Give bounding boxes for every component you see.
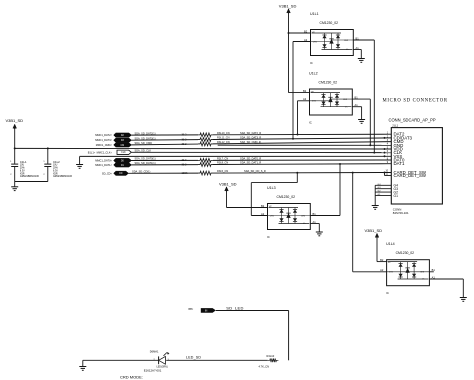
ground GND-vss-rail: [76, 165, 83, 169]
svg-text:CM1230_02: CM1230_02: [277, 195, 296, 199]
svg-text:IC: IC: [386, 291, 389, 295]
wire SDA_SD_CD_S_R to connector CARD_DET pin: [213, 169, 391, 173]
svg-text:U1L3: U1L3: [267, 186, 276, 190]
svg-text:CLK: CLK: [121, 152, 126, 154]
svg-text:CM: CM: [121, 145, 125, 147]
svg-text:33.2: 33.2: [182, 137, 188, 141]
wire row VSS from ground corner to connector: [80, 155, 392, 157]
svg-text:MMC1_DAT0<: MMC1_DAT0<: [95, 159, 112, 163]
wire U1L2 pin A1 to ground: [352, 106, 361, 108]
svg-text:10U: 10U: [53, 165, 58, 167]
svg-text:33.2: 33.2: [182, 162, 188, 166]
connector J1L1 CONN_SDCARD_AP_PP micro SD: [383, 99, 448, 216]
svg-text:MMC1_DAT2<: MMC1_DAT2<: [95, 133, 112, 137]
resistor R3L7_CN: [198, 156, 228, 162]
wire SDA_SD_DAT1 tag to resistor: [132, 162, 199, 166]
wire U1L3 B1 up to row DAT1: [310, 215, 340, 217]
svg-text:MMC1_CMD<: MMC1_CMD<: [96, 143, 113, 147]
svg-text:CM1230_02: CM1230_02: [319, 81, 338, 85]
wire U1L1 pin B2: [289, 32, 311, 34]
junction at U1L1 B2 tap: [288, 32, 290, 34]
svg-text:CRD MODE:: CRD MODE:: [120, 375, 143, 380]
resistor R3L5_CN: [198, 169, 228, 175]
ESD protection IC U1L2 CM1230_02: [303, 72, 358, 125]
svg-text:R4L10: R4L10: [267, 354, 275, 358]
svg-text:CM1230_02: CM1230_02: [396, 251, 415, 255]
node SD_CD input tag: [102, 170, 151, 176]
svg-text:MMC1_DAT3<: MMC1_DAT3<: [95, 138, 112, 142]
wire SDA_SD_DAT3 tag to resistor: [132, 137, 199, 141]
ground GND-led: [79, 367, 86, 371]
wire V3B1_SD stem down to U1L2 B2: [288, 13, 290, 92]
wire SDA_SD_DAT3_R to connector: [213, 136, 391, 140]
TVS diode array inside U1L3: [269, 207, 299, 209]
svg-text:B1L1> MMC1_CLK<: B1L1> MMC1_CLK<: [88, 150, 113, 154]
wire row GND (row4): [218, 144, 392, 146]
svg-text:V3B1_SD: V3B1_SD: [219, 182, 237, 187]
TVS diode array inside U1L1: [312, 32, 342, 34]
ground GND-connector: [372, 206, 379, 210]
wire U1L4 A1 to ground: [429, 278, 463, 280]
svg-text:GRM21BR60J106: GRM21BR60J106: [53, 176, 73, 178]
svg-text:33.2: 33.2: [182, 142, 188, 146]
svg-text:MMC1_DAT1<: MMC1_DAT1<: [95, 163, 112, 167]
svg-text:20%: 20%: [53, 168, 58, 170]
wire U1L3 A1 to ground: [310, 223, 319, 225]
svg-text:CD: CD: [119, 173, 123, 175]
power symbol PWR2 (V3B1_SD): [279, 3, 297, 13]
svg-text:X5R: X5R: [53, 173, 58, 175]
svg-text:IC: IC: [310, 61, 313, 65]
node SDA_SD_DAT0 input tag: [95, 157, 155, 163]
ground GND-U1L3: [316, 232, 323, 236]
svg-text:CM1230_02: CM1230_02: [320, 21, 339, 25]
wire SDA_SD_DAT2_R to connector: [213, 131, 391, 135]
node SDA_SD_DAT2 input tag: [95, 131, 155, 137]
svg-text:6.3V: 6.3V: [53, 170, 58, 172]
resistor R3L12_CN: [198, 140, 230, 146]
wire CARD_DET_SW pin tie: [384, 172, 386, 174]
wire SDA_SD_DAT0_R to connector: [213, 156, 391, 160]
wire U1L2 pin A2 to row DAT2: [298, 100, 310, 102]
svg-text:E1612A7-001: E1612A7-001: [144, 369, 162, 373]
wire SDA_SD_DAT1_R to connector: [213, 161, 391, 165]
wire power to U1L3 B2: [226, 191, 228, 207]
wire power to U1L4 B2: [376, 238, 378, 262]
wire U1L2 pin B2 from power stem: [289, 92, 310, 94]
wire SD_CD tag to resistor: [129, 171, 199, 175]
svg-text:R3L7_CN: R3L7_CN: [217, 156, 228, 160]
svg-text:33.2: 33.2: [182, 133, 188, 137]
connector ground pins G4..G1: [375, 184, 398, 206]
power symbol PWR3 (V3B1_SD): [219, 182, 237, 192]
ground GND-caps: [11, 187, 18, 191]
svg-text:C1L1: C1L1: [20, 160, 27, 164]
wire SDA_SD_CMD tag to resistor: [132, 142, 199, 146]
wire resistor to LED: [166, 359, 268, 361]
svg-text:C1L2: C1L2: [53, 160, 60, 164]
power symbol PWR4 (V3B1_SD): [365, 228, 383, 238]
svg-text:J1L1: J1L1: [392, 123, 399, 127]
ESD protection IC U1L4 CM1230_02: [380, 242, 435, 295]
wire U1L4 B1 stub: [429, 271, 433, 273]
LED D6MA1: [144, 350, 170, 373]
svg-text:CARD_DET_SW: CARD_DET_SW: [394, 173, 427, 178]
node row SD_CLK : open tag, wire to connector: [88, 149, 392, 155]
svg-text:R3L5_CN: R3L5_CN: [217, 169, 228, 173]
svg-text:U1L2: U1L2: [309, 72, 318, 76]
svg-text:IC: IC: [309, 121, 312, 125]
svg-text:CONN_SDCARD_AP_PP: CONN_SDCARD_AP_PP: [389, 118, 436, 123]
wire SDA_SD_CMD_R to connector: [213, 140, 391, 144]
svg-text:G1: G1: [394, 194, 399, 198]
svg-text:B65:: B65:: [189, 309, 194, 311]
svg-text:U1L1: U1L1: [310, 12, 319, 16]
wire SDA_SD_DAT2 tag to resistor: [132, 133, 199, 137]
svg-text:GRM21BR60J106: GRM21BR60J106: [20, 176, 40, 178]
svg-text:SD_LED: SD_LED: [226, 305, 243, 310]
wire SDA_SD_DAT0 tag to resistor: [132, 158, 199, 162]
svg-text:6.3V: 6.3V: [20, 170, 25, 172]
svg-text:V3B1_SD: V3B1_SD: [6, 118, 24, 123]
wire row SD_CD branch to U1L4 A2: [352, 172, 354, 174]
TVS diode array inside U1L4: [388, 261, 418, 263]
capacitor C1L1: [10, 148, 39, 181]
wire row SD_CD branch to U1L3 A2: [296, 172, 298, 174]
ESD protection IC U1L3 CM1230_02: [261, 186, 316, 239]
svg-text:33.7: 33.7: [182, 158, 188, 162]
wire ground stem: [14, 182, 16, 187]
wire U1L2 pin B1 to row GND: [352, 98, 370, 100]
node SD_LED tag: [189, 305, 244, 312]
wire SD_LED to corner: [216, 310, 289, 312]
ESD protection IC U1L1 CM1230_02: [304, 12, 359, 65]
TVS diode array inside U1L2: [311, 92, 341, 94]
wire power V3B1_SD down to VDD rail: [14, 128, 16, 149]
svg-text:LED_SD: LED_SD: [186, 356, 201, 360]
wire LED to ground: [83, 359, 159, 361]
power symbol PWR1 (V3B1_SD): [6, 118, 24, 129]
svg-text:IN: IN: [205, 310, 208, 312]
svg-text:D6MA1: D6MA1: [150, 350, 159, 354]
capacitor C1L2: [43, 148, 72, 181]
junction cap C1L2 top: [47, 147, 49, 149]
svg-text:V3B1_SD: V3B1_SD: [365, 228, 383, 233]
resistor R3L11_CN: [198, 136, 230, 142]
ground GND-U1L1: [358, 59, 365, 63]
node SDA_SD_CMD input tag: [96, 141, 152, 147]
ground GND-U1L2: [358, 120, 365, 124]
resistor R4L10: [259, 354, 279, 368]
ground GND-U1L4: [460, 298, 467, 302]
svg-text:IC: IC: [267, 235, 270, 239]
svg-text:SD_CD<: SD_CD<: [102, 171, 113, 175]
node SDA_SD_DAT3 input tag: [95, 136, 155, 142]
wire U1L1 pin B1 to row CLK: [353, 39, 374, 41]
junction dots at connector pins: [384, 137, 386, 139]
node SDA_SD_DAT1 input tag: [95, 161, 155, 167]
wire row VDD rail from caps to connector: [15, 147, 392, 150]
svg-text:DAT1: DAT1: [394, 161, 405, 166]
svg-text:MICRO SD CONNECTOR: MICRO SD CONNECTOR: [383, 99, 448, 104]
wire cap bottoms tie: [15, 181, 48, 183]
svg-text:20%: 20%: [20, 168, 25, 170]
svg-text:4.7K_CN: 4.7K_CN: [259, 365, 270, 369]
svg-text:84S729-101: 84S729-101: [393, 211, 409, 215]
svg-text:10U: 10U: [20, 165, 25, 167]
resistor R3L8_CN: [198, 161, 228, 167]
wire U1L1 pin A2 to row CD/DAT3: [293, 41, 311, 43]
resistor R3L10_CN: [198, 131, 230, 137]
svg-text:U1L4: U1L4: [386, 242, 395, 246]
svg-text:X5R: X5R: [20, 173, 25, 175]
svg-text:V3B1_SD: V3B1_SD: [279, 3, 297, 8]
wire U1L1 pin A1 to ground: [353, 49, 361, 51]
svg-text:100K: 100K: [182, 171, 188, 175]
